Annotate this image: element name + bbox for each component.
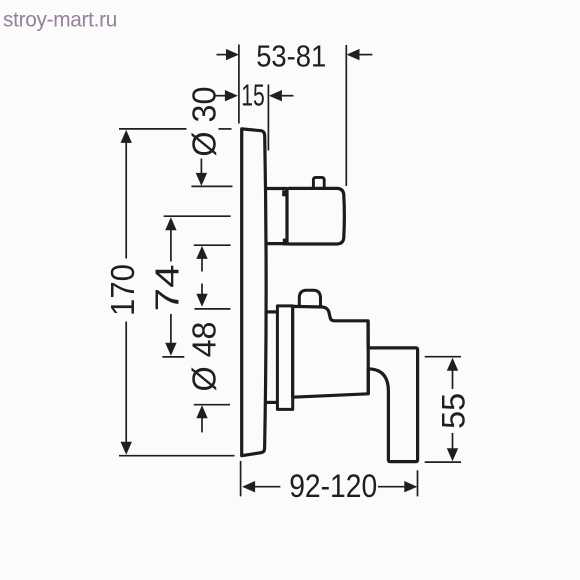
dim 53-81 left arrowhead xyxy=(226,49,239,60)
dim d30 line above down-arrow xyxy=(200,159,202,174)
lower sleeve top line xyxy=(266,310,278,313)
svg-text:53-81: 53-81 xyxy=(256,40,326,74)
dim 15 left arrow tail xyxy=(214,95,225,97)
dim 55 up arrowhead xyxy=(447,358,458,371)
dim 55 bottom tick xyxy=(425,461,461,463)
dim 92-120 right arrowhead xyxy=(404,481,417,492)
dim 53-81 right arrowhead xyxy=(347,49,360,60)
dim d48 top tick xyxy=(195,308,231,310)
dim 55 upper tail xyxy=(452,370,454,389)
thermostat knob xyxy=(287,188,344,244)
valve body xyxy=(293,306,369,397)
dim 170 up arrowhead xyxy=(121,130,132,143)
dim 53-81 extension line left xyxy=(238,45,240,124)
dim 15 right arrowhead xyxy=(269,90,282,101)
dim 170 upper line xyxy=(125,142,127,258)
dim d30 up arrowhead xyxy=(196,246,207,259)
svg-text:55: 55 xyxy=(435,393,471,429)
upper stem bottom line xyxy=(266,242,288,245)
dim 55 down arrowhead xyxy=(447,448,458,461)
svg-text:stroy-mart.ru: stroy-mart.ru xyxy=(3,8,117,31)
dim d48 down-arrow tail xyxy=(201,284,203,295)
dim 170 lower line xyxy=(125,322,127,443)
knob top nub xyxy=(313,177,324,187)
knob joint mark top xyxy=(282,190,288,196)
dim d30 up-arrow tail xyxy=(201,259,203,272)
svg-text:92-120: 92-120 xyxy=(289,468,377,504)
dim 74 upper line xyxy=(170,230,172,262)
knob joint mark bottom xyxy=(283,239,289,246)
dim 15 right arrow tail xyxy=(282,95,294,97)
dim d48 down arrowhead xyxy=(196,294,207,307)
dim 92-120 left extension xyxy=(240,461,242,497)
dim 53-81 left arrow tail xyxy=(217,54,228,56)
svg-text:Ø 48: Ø 48 xyxy=(186,322,223,392)
dim 170 top extension segment a xyxy=(119,128,187,130)
escutcheon flange xyxy=(277,306,292,410)
dim 53-81 right arrow tail xyxy=(360,54,373,56)
dim 74 bottom tick xyxy=(162,356,184,358)
svg-text:15: 15 xyxy=(241,80,265,113)
lower sleeve bottom line xyxy=(266,401,278,404)
dim 170 top extension segment b xyxy=(219,128,232,130)
dim 74 top tick xyxy=(164,215,231,217)
lever handle xyxy=(367,348,418,462)
dim d30 down arrowhead xyxy=(196,173,207,186)
svg-text:Ø 30: Ø 30 xyxy=(186,87,223,157)
svg-text:74: 74 xyxy=(149,264,186,311)
dim d30 bottom tick xyxy=(194,244,231,246)
upper stem top line xyxy=(266,187,288,190)
dim d30 top tick xyxy=(191,185,232,187)
dim d48 bottom tick xyxy=(194,404,230,406)
dim 74 down arrowhead xyxy=(165,343,176,356)
wall plate xyxy=(242,129,266,456)
dim 170 bottom extension xyxy=(119,455,235,457)
dim 53-81 extension line right xyxy=(345,45,347,186)
dim 170 down arrowhead xyxy=(121,442,132,455)
dim 15 extension line right xyxy=(267,85,269,151)
dim 55 top tick xyxy=(425,356,461,358)
svg-text:170: 170 xyxy=(104,264,141,316)
dim 74 lower line xyxy=(170,314,172,343)
dim 55 lower tail xyxy=(452,433,454,449)
dim 92-120 right extension xyxy=(417,470,419,496)
valve body right edge restated over lever xyxy=(367,321,370,394)
dim 74 up arrowhead xyxy=(165,217,176,230)
dim 92-120 left arrowhead xyxy=(242,481,255,492)
dim 15 left arrowhead xyxy=(225,90,238,101)
dim d48 up arrowhead xyxy=(196,405,207,418)
dim 92-120 right arrow tail xyxy=(378,486,405,488)
dome nub on valve body xyxy=(299,290,320,307)
dim d48 up-arrow tail xyxy=(201,418,203,432)
dim 92-120 left arrow tail xyxy=(255,486,281,488)
